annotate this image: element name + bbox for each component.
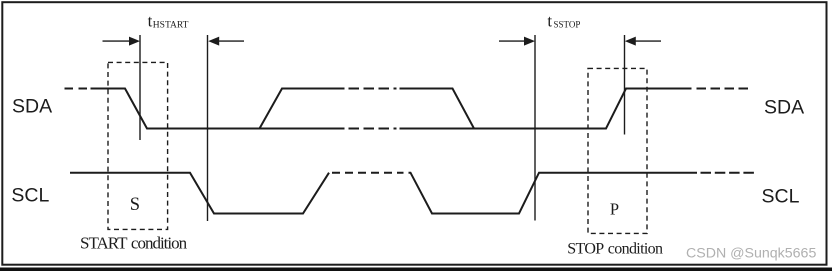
svg-text:t: t <box>547 12 552 31</box>
svg-text:SDA: SDA <box>12 96 52 118</box>
svg-text:SCL: SCL <box>11 185 49 207</box>
svg-text:P: P <box>610 200 619 219</box>
svg-text:CSDN @Sunqk5665: CSDN @Sunqk5665 <box>686 246 816 262</box>
svg-text:SDA: SDA <box>764 97 804 119</box>
svg-text:S: S <box>130 195 140 215</box>
svg-text:START condition: START condition <box>80 234 188 253</box>
svg-text:STOP condition: STOP condition <box>567 240 663 257</box>
svg-text:SSTOP: SSTOP <box>554 20 581 30</box>
svg-text:SCL: SCL <box>762 186 800 208</box>
svg-text:HSTART: HSTART <box>153 21 189 31</box>
